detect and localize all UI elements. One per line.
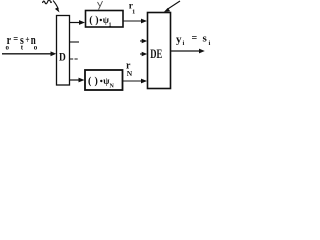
svg-text:o: o [6, 44, 10, 52]
svg-text:D: D [59, 50, 66, 64]
wire stub arrow into DE (upper) [140, 39, 147, 43]
block DE (decision) [148, 13, 171, 89]
node r1 label [129, 2, 135, 16]
wire stub on D right edge (upper) [70, 41, 80, 43]
wire stub on D right edge (lower, dashed) [70, 58, 79, 60]
node r0 = s + n input label [6, 32, 38, 52]
node output label y_i = s_i [176, 33, 211, 48]
annotation arrow into DE top [164, 1, 180, 12]
wire D to correlator 1 [70, 20, 86, 25]
svg-text:1: 1 [109, 23, 112, 29]
svg-text:i: i [209, 40, 211, 47]
annotation arrow into D top [53, 1, 60, 13]
svg-text:+: + [25, 35, 29, 46]
svg-text:=: = [192, 33, 198, 44]
annotation gamma mark above correlator 1 [98, 1, 103, 10]
annotation scribble top-left [43, 0, 52, 4]
svg-text:): ) [95, 76, 98, 87]
svg-text:y: y [176, 34, 182, 46]
block correlator U1: ( )*psi_1 [86, 11, 124, 29]
svg-text:i: i [183, 40, 185, 47]
node rN label [126, 61, 133, 79]
block correlator UN: ( )*psi_N [85, 70, 123, 90]
svg-text:N: N [127, 69, 133, 78]
wire input arrow into D [2, 51, 56, 56]
svg-text:s: s [203, 33, 208, 45]
svg-text:1: 1 [132, 9, 135, 16]
wire output arrow [171, 49, 205, 54]
block D (demultiplexer) [57, 16, 70, 86]
wire rN from correlator N to DE [123, 79, 148, 84]
wire D to correlator N [70, 78, 85, 83]
wire stub arrow into DE (lower) [140, 52, 147, 56]
svg-text:): ) [95, 15, 98, 26]
wire r1 from correlator 1 to DE [123, 19, 147, 24]
svg-text:N: N [110, 84, 115, 90]
svg-text:o: o [34, 44, 38, 52]
svg-text:DE: DE [150, 46, 162, 61]
svg-text:=: = [13, 34, 18, 45]
